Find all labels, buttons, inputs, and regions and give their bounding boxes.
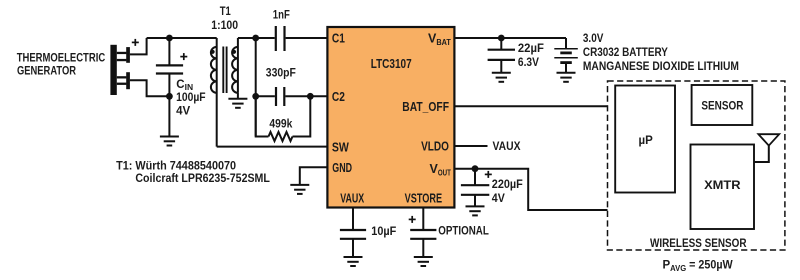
svg-text:VAUX: VAUX	[340, 191, 364, 205]
wire node B to ground	[168, 96, 170, 136]
node VBAT junction	[498, 35, 505, 42]
wire bus to 330pF	[256, 95, 275, 97]
resistor R 499k	[256, 96, 311, 141]
svg-text:220µF: 220µF	[492, 179, 523, 191]
svg-text:330pF: 330pF	[266, 68, 296, 80]
ground 220uF	[466, 206, 485, 215]
label T1 1:100	[211, 6, 238, 32]
svg-text:499k: 499k	[269, 118, 293, 130]
label 3.0V CR3032 BATTERY MANGANESE DIOXIDE LITHIUM	[583, 33, 739, 73]
node A junction	[166, 35, 173, 42]
wire VSTORE pin down	[422, 208, 424, 231]
capacitor C 10uF	[340, 230, 366, 257]
label THERMOELECTRIC GENERATOR	[17, 52, 106, 77]
svg-text:SW: SW	[332, 140, 349, 154]
svg-text:PAVG = 250µW: PAVG = 250µW	[663, 259, 733, 273]
box uP	[615, 86, 675, 193]
ground CIN	[160, 137, 179, 146]
node bus top junction	[252, 35, 259, 42]
wire TEG- to node B	[130, 80, 170, 96]
svg-text:VAUX: VAUX	[493, 141, 521, 153]
wireless sensor dashed box	[608, 81, 785, 250]
svg-text:THERMOELECTRIC: THERMOELECTRIC	[17, 52, 106, 64]
wire VBAT to battery	[454, 37, 566, 39]
svg-text:T1: T1	[220, 6, 231, 18]
svg-text:4V: 4V	[492, 193, 505, 205]
plus sign VSTORE +	[409, 216, 416, 223]
ground 22uF	[492, 73, 511, 82]
wire VAUX pin down	[352, 208, 354, 231]
phasing dot secondary	[232, 50, 236, 54]
svg-text:XMTR: XMTR	[704, 180, 741, 192]
capacitor C 22uF	[488, 38, 515, 73]
IC U1 LTC3107	[327, 27, 454, 208]
svg-text:MANGANESE DIOXIDE LITHIUM: MANGANESE DIOXIDE LITHIUM	[583, 61, 739, 73]
label T1 Wurth Coilcraft	[116, 160, 270, 185]
phasing dot primary	[211, 50, 215, 54]
capacitor C 1nF	[276, 26, 285, 51]
svg-text:VSTORE: VSTORE	[405, 191, 443, 205]
svg-text:1nF: 1nF	[273, 9, 290, 21]
svg-text:µP: µP	[639, 135, 654, 147]
svg-text:3.0V: 3.0V	[583, 33, 604, 45]
node B junction	[166, 93, 173, 100]
svg-text:1:100: 1:100	[211, 20, 238, 32]
wire bus to 1nF	[256, 37, 275, 39]
wire secondary top to bus	[238, 37, 256, 39]
svg-text:T1: Würth 74488540070: T1: Würth 74488540070	[116, 160, 236, 172]
ground 10uF	[344, 257, 363, 266]
label CIN 100uF 4V	[176, 79, 206, 117]
battery BT1 CR3032	[554, 38, 578, 73]
label 220uF 4V	[492, 179, 523, 205]
ground transformer secondary	[237, 93, 239, 99]
wire VOUT to wireless sensor	[454, 169, 607, 210]
svg-text:SENSOR: SENSOR	[701, 101, 744, 113]
svg-text:VLDO: VLDO	[421, 140, 449, 154]
wire 1nF to C1 pin	[286, 37, 328, 39]
svg-text:GENERATOR: GENERATOR	[17, 65, 77, 77]
ground battery	[557, 73, 576, 82]
wire top rail	[147, 37, 217, 39]
plus sign CIN +	[180, 53, 187, 60]
plus sign TEG +	[132, 39, 139, 46]
svg-text:WIRELESS SENSOR: WIRELESS SENSOR	[650, 238, 747, 250]
capacitor C 330pF	[276, 87, 284, 106]
svg-text:BAT_OFF: BAT_OFF	[402, 100, 449, 114]
transformer T1	[211, 38, 238, 147]
wire GND pin to ground	[300, 167, 328, 185]
ground optional cap	[414, 257, 433, 266]
svg-text:CR3032 BATTERY: CR3032 BATTERY	[583, 47, 668, 59]
node C2 junction	[307, 93, 314, 100]
node VOUT junction	[472, 165, 479, 172]
svg-text:22µF: 22µF	[518, 43, 544, 55]
label 22uF 6.3V	[518, 43, 544, 69]
capacitor CIN	[156, 38, 183, 96]
ground GND pin	[290, 185, 309, 194]
capacitor C 220uF	[461, 169, 489, 207]
wire TEG+ to top rail	[130, 38, 147, 54]
antenna	[754, 134, 779, 162]
plus sign 220uF +	[485, 171, 492, 178]
svg-text:C2: C2	[332, 90, 345, 104]
svg-text:CIN: CIN	[176, 79, 193, 92]
svg-text:LTC3107: LTC3107	[371, 57, 412, 71]
wire BAT_OFF to wireless sensor	[454, 105, 607, 107]
wire 330pF to C2 pin	[285, 95, 327, 97]
svg-text:4V: 4V	[176, 105, 190, 117]
thermoelectric generator TEG	[110, 45, 129, 95]
box XMTR	[691, 145, 755, 230]
svg-text:6.3V: 6.3V	[518, 57, 539, 69]
wire bus vertical	[255, 38, 257, 137]
wire VLDO	[454, 145, 487, 147]
capacitor C optional	[410, 230, 436, 257]
wire SW pin	[217, 146, 328, 148]
svg-text:100µF: 100µF	[176, 92, 206, 104]
svg-text:Coilcraft LPR6235-752SML: Coilcraft LPR6235-752SML	[135, 173, 270, 185]
svg-text:10µF: 10µF	[371, 226, 396, 238]
node bus 330pF junction	[252, 93, 259, 100]
svg-text:C1: C1	[332, 31, 345, 45]
box SENSOR	[692, 85, 753, 125]
svg-text:GND: GND	[332, 161, 352, 175]
svg-text:OPTIONAL: OPTIONAL	[438, 225, 489, 237]
